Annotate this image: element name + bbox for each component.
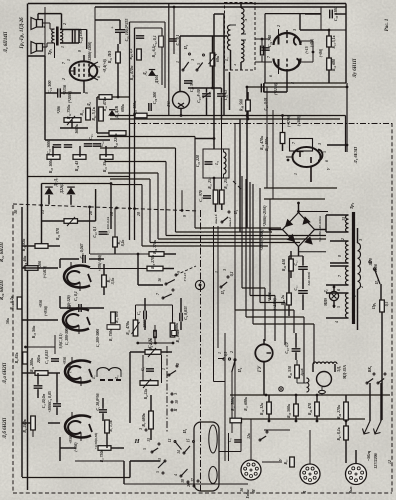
svg-text:6: 6 [97,76,101,78]
svg-text:9: 9 [177,271,181,273]
svg-text:П₅: П₅ [375,279,379,285]
svg-text:1680к: 1680к [75,124,79,134]
svg-text:3,5к: 3,5к [111,278,115,286]
svg-text:1: 1 [215,271,219,273]
svg-text:0,2: 0,2 [230,272,234,277]
svg-text:4: 4 [335,321,339,324]
svg-text:Д104: Д104 [155,75,159,84]
svg-text:2: 2 [277,25,281,28]
svg-text:14: 14 [177,450,181,454]
svg-text:12к: 12к [247,433,251,439]
svg-text:R₅₃ 5,1к: R₅₃ 5,1к [332,34,336,48]
svg-text:R₄₆ 470: R₄₆ 470 [308,403,312,415]
svg-text:L₃: L₃ [214,160,219,165]
svg-text:С₁₄: С₁₄ [100,141,104,147]
svg-text:Д226Д: Д226Д [60,182,64,194]
svg-text:ГУ: ГУ [258,365,263,373]
svg-text:R₃₅ ПО: R₃₅ ПО [107,51,112,64]
svg-text:С₃ 20,0м: С₃ 20,0м [42,393,46,408]
svg-text:С₁₇ 3000: С₁₇ 3000 [46,140,51,154]
svg-text:ГС: ГС [166,101,171,108]
svg-text:П₁: П₁ [182,428,187,434]
svg-text:С₃₄: С₃₄ [294,260,298,266]
svg-text:тыл.2: тыл.2 [228,217,232,226]
svg-text:L₁: L₁ [92,375,96,380]
svg-text:Пр₁: Пр₁ [372,303,376,310]
svg-text:С₂₇ 510: С₂₇ 510 [190,80,194,92]
svg-text:13: 13 [158,458,162,462]
svg-text:Д₆: Д₆ [143,70,147,76]
svg-text:5,6 480-520-630м: 5,6 480-520-630м [318,216,322,242]
svg-text:13: 13 [342,217,346,221]
svg-text:Л: Л [303,490,307,494]
svg-text:R₃ 750к: R₃ 750к [100,449,104,463]
svg-text:R₂₄ 6Н2П: R₂₄ 6Н2П [0,242,5,262]
svg-text:Тр₂: Тр₂ [349,202,354,209]
svg-text:9: 9 [183,215,187,217]
svg-text:6: 6 [325,160,329,162]
svg-text:3б: 3б [240,488,244,493]
svg-text:3: 3 [139,428,143,431]
svg-text:4: 4 [174,474,178,477]
svg-text:1: 1 [294,173,298,175]
svg-text:МН9: МН9 [324,298,328,307]
svg-text:С₁₅: С₁₅ [88,134,93,140]
svg-text:R₂₂ 970: R₂₂ 970 [56,228,60,240]
svg-text:R₃₉ 270к: R₃₉ 270к [151,254,155,269]
svg-text:С₈: С₈ [137,310,141,315]
svg-text:3: 3 [293,29,297,32]
svg-text:10: 10 [181,479,185,483]
svg-text:С₃₁ 0,1: С₃₁ 0,1 [93,226,97,237]
svg-text:680к: 680к [121,103,125,112]
svg-text:R₃₂ 220к: R₃₂ 220к [113,133,118,149]
svg-text:4: 4 [233,64,237,67]
svg-text:ЭД,: ЭД, [337,366,341,372]
svg-text:С₃₃: С₃₃ [294,285,298,291]
svg-text:3: 3 [97,66,101,69]
svg-text:8: 8 [85,92,89,94]
svg-text:(+15: (+15 [305,46,309,53]
svg-text:П₄: П₄ [237,367,242,373]
svg-text:С₈ 200-300б: С₈ 200-300б [65,327,69,346]
svg-text:R₃₀ 470м: R₃₀ 470м [103,96,107,111]
svg-text:С₁ 20,0*5б: С₁ 20,0*5б [96,392,100,410]
svg-text:С₂₈ 200: С₂₈ 200 [152,92,157,104]
svg-text:16: 16 [158,278,162,282]
svg-text:R₁₂ 200к: R₁₂ 200к [176,329,180,342]
svg-text:R₁₇ 680к: R₁₇ 680к [244,397,248,411]
svg-text:Д₄: Д₄ [87,101,91,107]
svg-text:~50гц: ~50гц [366,450,371,461]
svg-text:Тр₁: Тр₁ [47,48,52,55]
svg-text:R₄₃ 510: R₄₃ 510 [288,366,292,378]
svg-text:13: 13 [147,438,151,442]
svg-text:3: 3 [223,269,227,272]
svg-text:*220б(-220б): *220б(-220б) [88,41,92,63]
svg-text:7: 7 [292,142,296,144]
svg-text:15: 15 [187,439,191,443]
svg-text:6: 6 [269,75,273,77]
svg-text:С₃₂ 0,1: С₃₂ 0,1 [152,35,157,46]
svg-text:2: 2 [63,23,67,26]
svg-text:R₂ 240к: R₂ 240к [22,418,27,432]
svg-text:R₄₉ 2,2: R₄₉ 2,2 [129,48,133,59]
svg-text:200м: 200м [37,355,41,365]
svg-text:Гр₁-Гр₂ 1ГД-2б: Гр₁-Гр₂ 1ГД-2б [20,17,25,50]
svg-text:R₁₃ 100к: R₁₃ 100к [48,158,53,173]
svg-text:127/220б: 127/220б [373,452,378,468]
svg-text:б: б [337,289,341,291]
svg-text:5: 5 [156,471,160,473]
svg-text:+95б: +95б [63,357,67,365]
svg-text:С₁₈(1500: С₁₈(1500 [78,29,83,44]
svg-text:Л₅ 6Е5П: Л₅ 6Е5П [353,146,358,164]
svg-text:М: М [252,489,256,494]
svg-text:8,2к: 8,2к [121,240,125,247]
svg-text:Л₉ 6П14П: Л₉ 6П14П [4,31,9,53]
svg-text:R₁₅ 35к: R₁₅ 35к [102,159,107,172]
svg-text:R₄₈ 270к: R₄₈ 270к [337,404,341,419]
svg-text:5: 5 [143,448,147,450]
svg-text:R₁₆ 6,2к: R₁₆ 6,2к [9,295,14,310]
svg-text:*260б(+255б): *260б(+255б) [263,205,267,226]
svg-text:1: 1 [353,295,357,297]
svg-text:R₅₂ 680: R₅₂ 680 [332,59,336,71]
svg-text:5: 5 [323,151,327,153]
svg-text:R₃₁ 5,1к: R₃₁ 5,1к [91,106,96,120]
svg-text:R₁₉: R₁₉ [80,110,84,116]
svg-text:L₂: L₂ [115,375,119,380]
svg-text:R₁ 1,5к: R₁ 1,5к [109,420,113,431]
svg-text:2: 2 [62,78,66,81]
svg-text:R₄₂ 2к: R₄₂ 2к [281,294,285,305]
svg-text:1: 1 [218,352,222,354]
svg-text:5: 5 [197,63,201,65]
svg-text:дроб: дроб [300,368,304,375]
svg-text:Рис. 1: Рис. 1 [385,19,390,32]
svg-text:3: 3 [174,393,178,396]
svg-text:0,5: 0,5 [385,302,389,307]
svg-text:Лу 6Н1П: Лу 6Н1П [353,58,358,78]
svg-text:УЗ-15: УЗ-15 [183,272,187,281]
svg-text:R₂₀ 82к: R₂₀ 82к [21,238,26,252]
svg-text:Н: Н [133,438,140,445]
svg-text:*206: *206 [57,106,61,114]
svg-text:С₂₄ 970: С₂₄ 970 [199,190,203,202]
svg-text:17: 17 [191,478,195,482]
svg-text:1: 1 [61,46,65,48]
svg-text:Д₅ Д2В: Д₅ Д2В [115,106,119,119]
svg-text:8: 8 [338,255,342,257]
svg-text:Л₁а 6Н2П: Л₁а 6Н2П [3,362,8,384]
svg-text:R₇ 680к: R₇ 680к [141,412,146,426]
svg-text:С₂ 200-300б: С₂ 200-300б [96,329,100,348]
svg-text:12: 12 [168,439,172,443]
svg-text:С₉ 0,033: С₉ 0,033 [184,306,188,319]
svg-text:Гобш: Гобш [246,490,250,500]
svg-text:R₉ 82к: R₉ 82к [14,351,19,363]
svg-text:1: 1 [162,368,166,370]
svg-text:3: 3 [191,59,195,62]
svg-text:R₄ 22к: R₄ 22к [144,388,148,400]
svg-text:R₄₅ 25л: R₄₅ 25л [208,177,212,189]
svg-text:Л₁б 6Н2П: Л₁б 6Н2П [3,417,8,439]
svg-text:(+85б): (+85б) [44,306,48,316]
svg-text:С₂ 0,05: С₂ 0,05 [48,391,52,403]
svg-text:(+170б): (+170б) [287,114,291,127]
svg-text:R₅₀ 470м: R₅₀ 470м [130,65,134,80]
svg-text:R₂₆ 6Н2П: R₂₆ 6Н2П [0,280,5,300]
svg-text:(*200б): (*200б) [68,90,72,103]
svg-text:+300б: +300б [48,403,52,413]
svg-text:5: 5 [337,306,341,308]
svg-text:С₅ 0,033: С₅ 0,033 [45,350,49,364]
svg-text:R₁₀ 200к: R₁₀ 200к [30,357,34,372]
svg-text:1: 1 [176,61,180,63]
svg-text:12: 12 [388,460,392,464]
svg-text:Вых: Вых [349,486,353,494]
svg-text:С₂₆ 740: С₂₆ 740 [268,35,272,47]
svg-text:МД-35А: МД-35А [343,365,347,380]
svg-text:(-95б): (-95б) [74,442,78,451]
svg-text:R₄₄ 25л: R₄₄ 25л [224,177,228,189]
svg-text:+: + [111,25,114,30]
svg-text:R₃₆ 12к: R₃₆ 12к [260,402,264,415]
svg-text:П₃: П₃ [221,289,225,295]
svg-text:9: 9 [78,50,82,52]
svg-text:68к: 68к [215,55,220,62]
svg-text:Д₉: Д₉ [324,288,328,293]
svg-text:R₂₅ 470к: R₂₅ 470к [126,321,130,335]
svg-text:(*225б): (*225б) [274,82,278,95]
svg-text:2: 2 [176,363,180,366]
svg-text:(+50б): (+50б) [297,115,301,126]
svg-text:R₂₃ 100к: R₂₃ 100к [132,100,137,115]
svg-text:0,3: 0,3 [224,352,228,357]
svg-text:С₁₆ 300: С₁₆ 300 [47,80,52,94]
svg-text:R₈ 750к: R₈ 750к [109,329,113,341]
svg-text:R₃₈ 770к: R₃₈ 770к [153,239,157,254]
svg-text:R₃₇ 560к: R₃₇ 560к [231,397,235,411]
svg-text:R₃₉ 560к: R₃₉ 560к [287,403,291,418]
svg-text:R₄₈ 560: R₄₈ 560 [240,99,244,111]
svg-text:П: П [174,408,178,412]
svg-text:3: 3 [359,239,363,242]
svg-text:+95б: +95б [69,436,73,444]
svg-text:7: 7 [338,275,342,277]
svg-text:П₁₂ 750к: П₁₂ 750к [66,104,71,121]
svg-text:(+8б): (+8б) [319,48,323,57]
svg-text:R₂₉ 6,2: R₂₉ 6,2 [152,46,156,57]
svg-text:1: 1 [67,59,71,61]
svg-text:R₁₄ 43: R₁₄ 43 [74,161,79,171]
svg-text:56к: 56к [6,317,10,324]
svg-text:R₄₇ 8,2к: R₄₇ 8,2к [337,426,341,440]
svg-text:R₁₅ 680: R₁₅ 680 [115,311,119,323]
svg-text:С₂₉ 8-30: С₂₉ 8-30 [197,89,201,102]
svg-text:9,0(С₂0,1): 9,0(С₂0,1) [59,333,63,348]
svg-text:R₁₃ 56к: R₁₃ 56к [31,325,36,339]
svg-text:+85б: +85б [39,300,43,308]
svg-text:10: 10 [175,400,179,404]
svg-text:С₂₃ 220: С₂₃ 220 [196,155,200,167]
svg-text:12: 12 [341,238,345,242]
svg-text:R₅₈: R₅₈ [284,459,288,465]
svg-text:L₅: L₅ [225,57,229,62]
svg-text:С₃₅ 100,0*255: С₃₅ 100,0*255 [125,19,129,42]
svg-text:П₂: П₂ [183,44,188,50]
svg-text:2: 2 [230,351,234,354]
svg-text:3: 3 [318,143,322,146]
svg-text:340-930б: 340-930б [307,272,311,287]
svg-text:7: 7 [267,56,271,58]
svg-text:*210б: *210б [268,292,272,301]
svg-text:С₂₁ 100-0,04: С₂₁ 100-0,04 [106,217,110,235]
svg-text:С₁₀ 2,0: С₁₀ 2,0 [285,342,289,353]
svg-text:30: 30 [14,210,18,215]
svg-text:ВК₁: ВК₁ [368,366,372,374]
svg-text:(+210б): (+210б) [273,298,277,310]
svg-text:R₄₀ 410: R₄₀ 410 [282,259,286,271]
svg-text:Д₇-Д₈: Д₇-Д₈ [54,177,58,188]
svg-text:2: 2 [360,286,364,289]
svg-text:тыл.б: тыл.б [214,214,218,223]
svg-text:R₅₈ 470к: R₅₈ 470к [260,135,264,150]
svg-text:28: 28 [137,212,141,217]
svg-text:7: 7 [156,293,160,295]
svg-text:С₇ 0,1: С₇ 0,1 [74,291,78,301]
svg-text:+230б(+230б): +230б(+230б) [260,229,264,250]
